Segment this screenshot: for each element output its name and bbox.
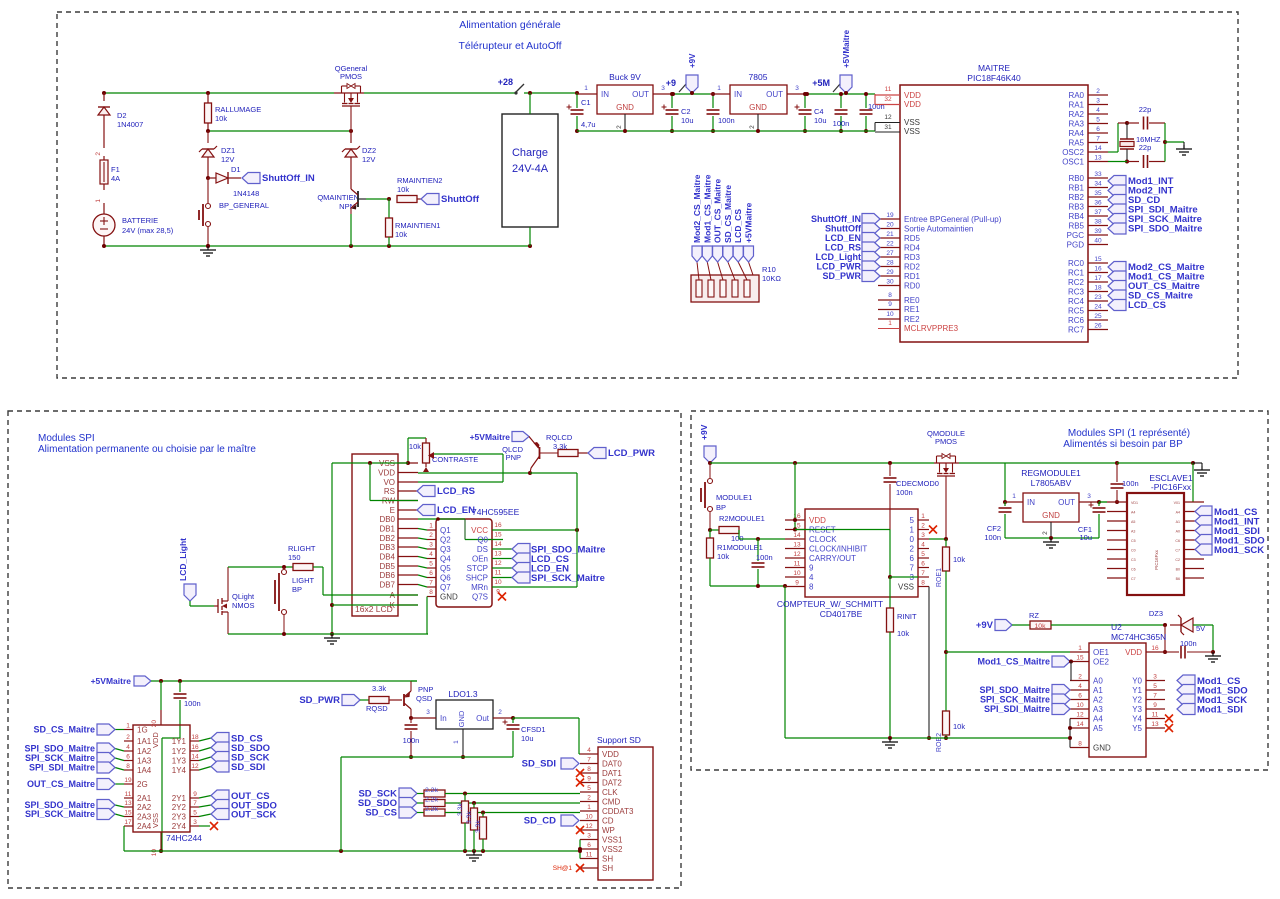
vertical label flag OUT_CS_Maitre: [713, 178, 723, 262]
svg-text:QMAINTIEN: QMAINTIEN: [317, 193, 359, 202]
wire VCC to +5 net: [512, 473, 579, 587]
pin Q4 4 wire from LCD DB: [418, 551, 451, 564]
svg-text:Y5: Y5: [1132, 724, 1142, 733]
CD4017 pin CLOCK 14: [785, 532, 837, 544]
svg-text:LCD_Light: LCD_Light: [816, 252, 862, 262]
power flag +5M and +5VMaitre: [812, 29, 852, 95]
ground right section: [882, 738, 898, 748]
wire VSS net LCD: [330, 461, 418, 636]
svg-text:RC5: RC5: [1068, 307, 1085, 316]
Support SD pin SH 11: [580, 852, 613, 864]
svg-text:10k: 10k: [897, 629, 909, 638]
pin OSC2 14: [1062, 145, 1108, 157]
svg-text:7: 7: [193, 800, 197, 807]
svg-text:+5VMaitre: +5VMaitre: [470, 432, 511, 442]
svg-text:Mod1_CS_Maitre: Mod1_CS_Maitre: [702, 174, 712, 243]
svg-text:1: 1: [1078, 645, 1082, 652]
hierarchical label Mod1_SDI (esclave): [1195, 525, 1260, 537]
svg-text:22p: 22p: [1139, 143, 1152, 152]
svg-text:OEn: OEn: [472, 555, 488, 564]
svg-text:10: 10: [494, 579, 502, 586]
svg-text:A5: A5: [1093, 724, 1103, 733]
pin 1A3 6 flag SPI_SCK_Maitre: [25, 753, 152, 766]
pin Q7S 9: [472, 589, 500, 602]
svg-text:Y0: Y0: [1132, 677, 1142, 686]
svg-text:RE2: RE2: [904, 315, 920, 324]
svg-text:1: 1: [910, 526, 915, 535]
svg-text:SH@1: SH@1: [553, 865, 573, 872]
svg-text:7: 7: [429, 580, 433, 587]
svg-text:8: 8: [587, 766, 591, 773]
svg-text:1: 1: [584, 85, 588, 92]
wire VDD row to QLCD: [418, 471, 577, 475]
svg-text:1: 1: [587, 804, 591, 811]
svg-text:IN: IN: [734, 90, 742, 99]
svg-text:V01: V01: [1174, 501, 1180, 505]
CD4017 pin 9 11: [785, 561, 814, 573]
svg-text:12: 12: [884, 114, 892, 121]
pin 2Y4 3: [172, 819, 199, 831]
svg-text:4: 4: [1096, 107, 1100, 114]
svg-text:9: 9: [809, 564, 814, 573]
svg-text:ROE2: ROE2: [936, 733, 943, 752]
pin RA1 3: [1068, 98, 1108, 110]
svg-text:Y3: Y3: [1132, 705, 1142, 714]
svg-text:LDO1.3: LDO1.3: [448, 689, 478, 699]
svg-text:A4: A4: [1176, 511, 1180, 515]
svg-text:LCD_CS: LCD_CS: [733, 209, 743, 243]
svg-text:10k: 10k: [397, 185, 409, 194]
pin RA0 2: [1068, 88, 1108, 100]
regulator 7805: [710, 72, 807, 131]
svg-text:DB1: DB1: [379, 525, 395, 534]
power flag +9 and +9V: [666, 53, 698, 95]
hierarchical label SD_SDO with resistor 2.2k: [358, 797, 580, 810]
svg-text:32: 32: [884, 96, 892, 103]
svg-text:100n: 100n: [1122, 479, 1139, 488]
wire OSC2 to crystal top: [1108, 123, 1127, 152]
Support SD pin VSS2 6: [580, 842, 623, 854]
svg-text:L7805ABV: L7805ABV: [1031, 478, 1072, 488]
svg-text:12: 12: [494, 560, 502, 567]
svg-text:PIC16Fxx: PIC16Fxx: [1154, 549, 1159, 570]
svg-text:6: 6: [126, 754, 130, 761]
svg-text:2: 2: [616, 125, 623, 129]
svg-text:B0: B0: [1176, 568, 1180, 572]
svg-text:MCLRVPPRE3: MCLRVPPRE3: [904, 324, 959, 333]
resistor RMAINTIEN1 10k: [386, 199, 441, 246]
pin RA4 6: [1068, 126, 1108, 138]
svg-text:PGD: PGD: [1067, 241, 1085, 250]
svg-text:3: 3: [795, 85, 799, 92]
svg-text:40: 40: [1094, 238, 1102, 245]
pin 2Y3 5 flag OUT_SCK: [172, 809, 277, 822]
svg-text:RB2: RB2: [1068, 193, 1084, 202]
svg-text:3.3k: 3.3k: [475, 820, 482, 833]
MCU ESCLAVE1 PIC16Fxx: [1127, 473, 1193, 595]
CD4017 pin 6 5: [910, 551, 929, 563]
svg-text:4,7u: 4,7u: [581, 120, 596, 129]
svg-text:QSD: QSD: [416, 694, 433, 703]
svg-text:VCC: VCC: [471, 526, 488, 535]
svg-text:1: 1: [95, 199, 102, 203]
svg-text:3: 3: [921, 532, 925, 539]
ground esclave top: [1194, 466, 1210, 476]
vertical label flag Mod2_CS_Maitre: [692, 174, 702, 262]
svg-text:10k: 10k: [953, 722, 965, 731]
wire gate net RALLUMAGE to PMOS gate: [206, 129, 353, 133]
svg-text:26: 26: [1094, 323, 1102, 330]
svg-text:1: 1: [921, 513, 925, 520]
shift register 74HC595EE: [436, 507, 520, 607]
svg-text:A0: A0: [1093, 677, 1103, 686]
switch BP_GENERAL: [199, 178, 269, 246]
Support SD pin CMD 2: [580, 795, 620, 807]
svg-text:100n: 100n: [868, 102, 885, 111]
wire +9V top rail: [710, 461, 934, 465]
svg-text:20: 20: [886, 222, 894, 229]
ground at crystal: [1165, 142, 1192, 155]
ESCLAVE1 pins: [1107, 501, 1204, 581]
wire regulator ground rail: [1005, 536, 1099, 540]
regulator Buck 9V: [577, 72, 673, 131]
svg-text:2: 2: [126, 734, 130, 741]
svg-text:SH: SH: [602, 855, 613, 864]
U2 pin Y3 9: [1132, 702, 1243, 716]
svg-text:Mod1_SDI: Mod1_SDI: [1197, 705, 1243, 716]
svg-text:CDECMOD0: CDECMOD0: [896, 479, 939, 488]
wire OUT to ESCLAVE1: [1099, 501, 1107, 503]
svg-text:4: 4: [1078, 683, 1082, 690]
svg-text:2Y3: 2Y3: [172, 813, 187, 822]
svg-text:9: 9: [587, 776, 591, 783]
svg-text:RB3: RB3: [1068, 203, 1084, 212]
pin 20 VDD top: [151, 681, 161, 727]
svg-text:GND: GND: [1093, 744, 1111, 753]
svg-text:RB4: RB4: [1068, 212, 1084, 221]
svg-text:SD_CS: SD_CS: [365, 808, 397, 819]
svg-text:3: 3: [587, 833, 591, 840]
section border: Modules SPI droite: [691, 411, 1268, 770]
svg-text:24V-4A: 24V-4A: [512, 163, 549, 175]
svg-text:REGMODULE1: REGMODULE1: [1021, 468, 1081, 478]
title Modules SPI: [38, 433, 256, 455]
transistor QMAINTIEN NPN: [317, 189, 389, 246]
pin RB1 34 flag Mod2_INT: [1068, 181, 1173, 197]
svg-text:2: 2: [1042, 531, 1049, 535]
svg-text:C3: C3: [1131, 558, 1136, 562]
svg-text:8: 8: [888, 292, 892, 299]
svg-text:RINIT: RINIT: [897, 612, 917, 621]
U2 pin Y0 3: [1132, 674, 1240, 688]
svg-text:2Y4: 2Y4: [172, 822, 187, 831]
svg-text:CLOCK/INHIBIT: CLOCK/INHIBIT: [809, 545, 867, 554]
U2 pin Y4 11: [1132, 712, 1173, 724]
svg-text:RZ: RZ: [1029, 611, 1039, 620]
svg-text:Alimentés si besoin par BP: Alimentés si besoin par BP: [1063, 439, 1183, 450]
regulator LDO1.3: [411, 689, 513, 759]
pin RC1 16 flag Mod1_CS_Maitre: [1068, 266, 1205, 283]
svg-text:VO: VO: [383, 478, 395, 487]
pin PGD 40: [1067, 238, 1108, 250]
svg-text:10u: 10u: [681, 116, 694, 125]
svg-text:Y4: Y4: [1132, 715, 1142, 724]
wire output 0 to gate and ROE1: [929, 537, 948, 541]
svg-text:LCD_Light: LCD_Light: [178, 538, 188, 581]
svg-text:OSC1: OSC1: [1062, 158, 1084, 167]
svg-text:1G: 1G: [137, 726, 148, 735]
svg-text:2: 2: [749, 125, 756, 129]
wire VO row wiper loop: [418, 452, 503, 482]
wire OE2 flag to A0: [1069, 660, 1073, 681]
pin 21 RD5 flag LCD_EN: [825, 231, 921, 244]
svg-text:Y2: Y2: [1132, 696, 1142, 705]
pin 2A2 13 flag SPI_SDO_Maitre: [24, 800, 151, 813]
svg-text:LCD_PWR: LCD_PWR: [817, 262, 862, 272]
svg-text:RQLCD: RQLCD: [546, 433, 573, 442]
svg-text:SPI_SDO_Maitre: SPI_SDO_Maitre: [979, 685, 1050, 695]
pin 1Y4 12 flag SD_SDI: [172, 761, 266, 775]
svg-text:28: 28: [886, 260, 894, 267]
pin 20 Sortie Automaintien flag ShuttOff: [825, 222, 973, 235]
pins RE0 RE1 RE2: [878, 292, 920, 324]
svg-text:ShuttOff_IN: ShuttOff_IN: [811, 214, 861, 224]
svg-text:A4: A4: [1131, 511, 1135, 515]
U2 pin A1 4 flag SPI_SDO_Maitre: [979, 683, 1103, 696]
svg-text:2: 2: [95, 152, 102, 156]
U2 pin A2 6 flag SPI_SCK_Maitre: [980, 693, 1103, 706]
svg-text:Q7S: Q7S: [472, 593, 488, 602]
svg-text:12V: 12V: [221, 155, 234, 164]
capacitor 100n (a): [833, 92, 850, 133]
svg-text:13: 13: [793, 542, 801, 549]
ground at BP_GENERAL: [200, 244, 216, 256]
svg-text:-PIC16Fxx: -PIC16Fxx: [1151, 482, 1192, 492]
svg-text:100n: 100n: [756, 553, 773, 562]
svg-text:Mod1_SCK: Mod1_SCK: [1214, 545, 1264, 556]
svg-text:Support SD: Support SD: [597, 735, 641, 745]
title Modules SPI (1 represente): [1063, 428, 1190, 450]
wire PMOS drain to +28 switch: [364, 92, 515, 94]
svg-text:VDD: VDD: [602, 750, 619, 759]
svg-text:3: 3: [429, 542, 433, 549]
svg-text:19: 19: [886, 212, 894, 219]
svg-text:C1: C1: [581, 98, 591, 107]
capacitor C4 10u: [795, 92, 827, 133]
svg-text:11: 11: [495, 570, 502, 577]
pin 2A4 17: [124, 819, 152, 831]
zener DZ3 5V: [1149, 609, 1213, 635]
svg-text:GND: GND: [440, 593, 458, 602]
svg-text:+9V: +9V: [976, 620, 994, 631]
svg-text:SPI_SDI_Maitre: SPI_SDI_Maitre: [984, 704, 1050, 714]
svg-text:VDD: VDD: [378, 469, 395, 478]
wire VSS1 VSS2 SH to ground: [578, 840, 582, 859]
U2 pin A5 14: [1070, 721, 1103, 733]
svg-text:CLOCK: CLOCK: [809, 535, 837, 544]
svg-text:10: 10: [886, 311, 894, 318]
svg-text:7: 7: [921, 570, 925, 577]
svg-text:RA0: RA0: [1068, 91, 1084, 100]
pin 28 RD2 flag LCD_PWR: [817, 260, 921, 273]
svg-text:10KΩ: 10KΩ: [762, 274, 781, 283]
resistor R2MODULE1 100: [708, 514, 785, 543]
svg-text:DAT1: DAT1: [602, 769, 622, 778]
svg-text:CMD: CMD: [602, 798, 620, 807]
svg-text:17: 17: [124, 819, 132, 826]
svg-text:VDD: VDD: [151, 732, 160, 748]
svg-text:100n: 100n: [896, 488, 913, 497]
svg-text:3: 3: [193, 819, 197, 826]
svg-text:MRn: MRn: [471, 583, 488, 592]
U2 pin OE1 1: [1070, 645, 1110, 657]
svg-text:DS: DS: [477, 545, 488, 554]
svg-text:3: 3: [426, 709, 430, 716]
svg-text:C0: C0: [1131, 549, 1136, 553]
transistor QGeneral PMOS: [334, 64, 368, 131]
svg-text:3.3k: 3.3k: [466, 811, 473, 824]
wire A4 A5 GND to ground rail: [1068, 719, 1072, 748]
svg-text:5: 5: [193, 810, 197, 817]
wire 7805 out to VDD pins: [805, 92, 875, 96]
svg-text:9: 9: [795, 580, 799, 587]
hierarchical label Mod1_INT (esclave): [1195, 516, 1260, 528]
svg-text:1: 1: [453, 740, 460, 744]
svg-text:RA2: RA2: [1068, 110, 1084, 119]
potentiometer CONTRASTE 10k: [406, 438, 478, 472]
svg-text:D1: D1: [231, 165, 241, 174]
pin GND 8 wire from LCD DB: [427, 589, 458, 602]
svg-text:VDD: VDD: [904, 100, 921, 109]
svg-text:DB7: DB7: [379, 581, 395, 590]
svg-text:1: 1: [429, 523, 433, 530]
svg-text:12V: 12V: [362, 155, 375, 164]
MCU MAITRE PIC18F46K40: [900, 63, 1088, 342]
svg-text:LIGHT: LIGHT: [292, 576, 315, 585]
svg-text:DZ1: DZ1: [221, 146, 235, 155]
svg-text:10u: 10u: [814, 116, 827, 125]
fuse F1 4A: [95, 156, 120, 203]
svg-text:10: 10: [1076, 702, 1084, 709]
svg-text:24: 24: [1094, 304, 1102, 311]
CD4017 pin CLOCK/INHIBIT 13: [785, 542, 867, 554]
svg-text:Modules SPI: Modules SPI: [38, 433, 95, 444]
svg-text:VSS: VSS: [904, 127, 920, 136]
svg-text:20: 20: [151, 720, 158, 728]
svg-text:9: 9: [1153, 702, 1157, 709]
svg-text:LCD_CS: LCD_CS: [1128, 300, 1166, 311]
ground at SD pulldowns: [466, 851, 482, 861]
power flag +9V top left: [699, 424, 716, 465]
svg-text:1N4148: 1N4148: [233, 189, 259, 198]
svg-text:MODULE1: MODULE1: [716, 493, 752, 502]
svg-text:4: 4: [126, 744, 130, 751]
svg-text:PGC: PGC: [1067, 231, 1085, 240]
svg-text:In: In: [440, 714, 447, 723]
svg-text:PMOS: PMOS: [935, 437, 957, 446]
svg-text:NMOS: NMOS: [232, 601, 255, 610]
pin 1A4 8 flag SPI_SDI_Maitre: [29, 762, 152, 775]
svg-text:SPI_SDO_Maitre: SPI_SDO_Maitre: [1128, 224, 1202, 235]
svg-text:22: 22: [886, 241, 894, 248]
pin OSC1 13: [1062, 155, 1108, 167]
buffer U2 MC74HC365N: [1089, 622, 1166, 757]
U2 pin A0 2: [1070, 674, 1103, 686]
pin Q7 7 wire from LCD DB: [418, 580, 451, 593]
CD4017 pin 1 2: [910, 523, 937, 535]
Support SD pin CD 10: [580, 814, 614, 826]
svg-text:6: 6: [1096, 126, 1100, 133]
pin 19 Entree BPGeneral (Pull-up) flag ShuttOff_IN: [811, 212, 1002, 225]
svg-text:Q7: Q7: [440, 583, 451, 592]
svg-text:5: 5: [910, 516, 915, 525]
svg-text:3: 3: [1153, 674, 1157, 681]
wire OE1 to ROE1: [946, 651, 1070, 653]
svg-text:CFSD1: CFSD1: [521, 725, 546, 734]
svg-text:16: 16: [494, 522, 502, 529]
svg-text:1: 1: [888, 320, 892, 327]
svg-text:1Y2: 1Y2: [172, 747, 187, 756]
hierarchical label Mod1_CS (esclave): [1195, 506, 1257, 518]
switch MODULE1 BP: [701, 463, 752, 530]
svg-text:VSS: VSS: [898, 583, 914, 592]
svg-text:+5VMaitre: +5VMaitre: [91, 676, 132, 686]
pin RB0 33 flag Mod1_INT: [1068, 171, 1173, 187]
svg-text:Q4: Q4: [440, 555, 451, 564]
svg-text:F1: F1: [111, 165, 120, 174]
svg-text:10: 10: [793, 570, 801, 577]
pin RC3 18 flag SD_CS_Maitre: [1068, 285, 1193, 302]
svg-text:PNP: PNP: [506, 453, 521, 462]
svg-text:SPI_SCK_Maitre: SPI_SCK_Maitre: [531, 573, 605, 584]
resistor RQLCD 3.3k: [546, 433, 588, 457]
resistor ROE1 10k: [936, 539, 965, 711]
CD4017 pin 7 6: [910, 561, 929, 573]
svg-text:Mod2_CS_Maitre: Mod2_CS_Maitre: [692, 174, 702, 243]
power flag +5VMaitre rail: [91, 676, 417, 686]
ground regulator: [1043, 538, 1059, 548]
wire 595 GND pin to ground rail: [427, 597, 428, 635]
svg-text:8: 8: [126, 763, 130, 770]
wire crystal right leg: [1163, 123, 1167, 162]
resistor RMAINTIEN2 10k: [387, 176, 442, 203]
wire VSS CD4017 down: [927, 587, 931, 741]
svg-text:5: 5: [921, 551, 925, 558]
capacitor 100n U2: [1165, 639, 1213, 659]
svg-text:BATTERIE: BATTERIE: [122, 216, 158, 225]
svg-text:C2: C2: [681, 107, 691, 116]
hierarchical label SD_SDI: [522, 758, 579, 770]
svg-text:RC1: RC1: [1068, 269, 1085, 278]
svg-text:4: 4: [429, 551, 433, 558]
svg-text:DB4: DB4: [379, 553, 395, 562]
svg-text:3: 3: [661, 85, 665, 92]
pin Q6 6 wire from LCD DB: [418, 570, 451, 583]
pin Q2 2 wire from LCD DB: [418, 532, 451, 545]
svg-text:A1: A1: [1093, 686, 1103, 695]
U2 pin Y1 5: [1132, 683, 1247, 697]
svg-text:12: 12: [191, 763, 199, 770]
wire bottom rail: [102, 244, 532, 248]
svg-text:RALLUMAGE: RALLUMAGE: [215, 105, 261, 114]
X noconnect Q7S: [498, 593, 506, 601]
svg-text:3: 3: [1096, 98, 1100, 105]
svg-text:+5VMaitre: +5VMaitre: [842, 29, 851, 68]
svg-text:SD_PWR: SD_PWR: [822, 271, 861, 281]
switch LIGHT BP: [275, 567, 315, 634]
svg-text:IN: IN: [601, 90, 609, 99]
pin 1A2 4 flag SPI_SDO_Maitre: [24, 743, 151, 756]
